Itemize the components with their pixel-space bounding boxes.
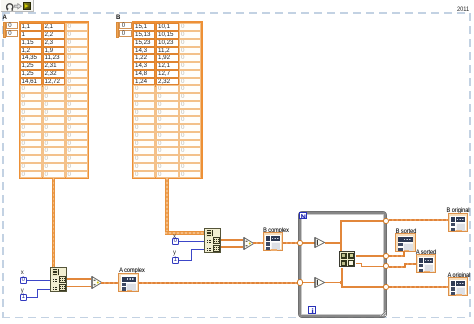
wire: sort node out2 seg3 to tunnel T3 — [361, 266, 383, 268]
wire: y constant to Index Array B seg2 — [191, 249, 192, 261]
array A data cells — [0, 0, 1, 1]
numeric constant x=0 (A chain) — [20, 277, 27, 285]
wire: triangle A to A complex — [101, 282, 119, 284]
boundary dashed line bottom — [2, 317, 470, 318]
wire: triangle 1 to junction — [325, 242, 342, 244]
array B shell frame — [132, 21, 203, 179]
wire: y constant to Index Array A seg2 — [37, 289, 38, 298]
wire: array B to Index Array (horizontal) — [165, 231, 204, 234]
numeric constant y=1 (B chain) — [172, 257, 179, 265]
toolbar icon: gray arrow — [14, 3, 22, 10]
wire: B complex to loop tunnel — [283, 242, 299, 244]
wire: y constant to Index Array B seg1 — [179, 260, 193, 261]
wire: sort node out1 to tunnel T2 — [356, 255, 383, 257]
wire: Index Array B out re — [221, 239, 243, 241]
wire: x constant to Index Array A — [27, 280, 50, 281]
loop input tunnel L2 (A complex) — [297, 279, 303, 285]
array A index display 0 — [6, 22, 19, 29]
wire: triangle B to B complex — [253, 242, 263, 244]
for loop N glyph — [301, 214, 306, 219]
toolbar background — [1, 0, 34, 12]
wire: top rail to tunnel T1 — [340, 220, 382, 222]
toolbar icon: circular arrow — [5, 2, 14, 11]
abs/magnitude triangle 2 (A) — [314, 277, 326, 288]
for loop structure — [299, 212, 387, 317]
junction dot 2 — [340, 281, 343, 284]
wire: A complex to loop tunnel — [139, 282, 299, 284]
wire: triangle 2 to junction 2 — [325, 282, 342, 284]
wire: sort node out2 seg1 — [356, 263, 363, 265]
wire: y constant to Index Array B seg3 — [191, 249, 204, 250]
loop output tunnel T1 (B original) — [383, 218, 389, 224]
indicator A complex — [118, 273, 139, 292]
wire: bottom rail to tunnel T4 — [341, 286, 383, 288]
for loop iteration terminal i — [308, 306, 316, 313]
wire: sort node out2 seg2 — [361, 263, 363, 267]
abs/magnitude triangle 1 (B) — [314, 237, 326, 248]
indicator B complex — [263, 232, 284, 251]
label B complex — [259, 227, 293, 234]
wire: Index Array B out im — [221, 246, 243, 248]
wire: Index Array A out re — [67, 278, 91, 280]
year label 2011 — [457, 6, 471, 13]
array B index display 1 — [119, 30, 132, 37]
boundary dashed line right — [469, 13, 470, 317]
wire: T1 to B original — [389, 219, 448, 221]
loop input tunnel L1 (B complex) — [297, 240, 303, 246]
wire: array B down (vertical) — [165, 178, 168, 231]
array B data cells — [0, 0, 1, 1]
for loop i glyph — [310, 308, 315, 313]
wire: y constant to Index Array A seg1 — [27, 297, 39, 298]
wire: x constant to Index Array B — [179, 241, 204, 242]
wire: junction down to sort node — [340, 242, 342, 251]
loop output tunnel T3 (A sorted) — [383, 263, 389, 269]
wire: T3 to A sorted seg1 — [389, 266, 406, 268]
sort 2D node (matrix icon) — [339, 251, 356, 268]
array A label — [3, 15, 7, 21]
toolbar icon run box — [23, 2, 31, 10]
array B index display 0 — [119, 22, 132, 29]
array B label — [116, 15, 120, 21]
label A complex — [115, 267, 149, 274]
wire: T4 to A original — [389, 286, 448, 288]
wire: Index Array A out im — [67, 286, 91, 288]
indicator B sorted — [395, 233, 416, 252]
wire: T3 to A sorted seg3 — [404, 263, 416, 265]
label B sorted — [389, 228, 423, 235]
array A index display 1 — [6, 30, 19, 37]
wire: junction 2 up to sort node — [341, 268, 343, 283]
boundary dashed line left — [2, 13, 3, 317]
indicator A sorted — [416, 254, 437, 273]
wire: y constant to Index Array A seg3 — [37, 289, 50, 290]
label y (A chain) — [21, 288, 26, 294]
wire: array A to Index Array (vertical) — [52, 178, 55, 267]
Re/Im to Complex function (A chain) — [91, 276, 103, 289]
junction dot 1 — [340, 242, 343, 245]
boundary dashed line top — [2, 12, 470, 13]
wire: T3 to A sorted seg2 — [404, 263, 406, 267]
indicator B original — [448, 213, 469, 232]
label A sorted — [409, 249, 443, 256]
Index Array node A1 (array A) — [50, 267, 67, 293]
wire: T2 to B sorted seg1 — [389, 255, 405, 257]
loop output tunnel T4 (A original) — [383, 284, 389, 290]
wire: junction up to top rail — [340, 220, 342, 244]
label B original — [441, 207, 474, 214]
loop output tunnel T2 (B sorted) — [383, 253, 389, 259]
wire: L1 to abs triangle 1 — [303, 242, 315, 244]
for loop count terminal N — [299, 212, 307, 219]
array B active region — [134, 23, 179, 88]
label A original — [442, 272, 474, 279]
array A shell frame — [19, 21, 90, 179]
Index Array node B1 (array B) — [204, 228, 221, 254]
wire: T2 to B sorted seg2 — [403, 251, 405, 257]
for loop resize grip — [379, 309, 386, 316]
array A active region — [20, 23, 65, 88]
label x (A chain) — [21, 270, 26, 276]
numeric constant x=0 (B chain) — [172, 238, 179, 246]
Re/Im to Complex function (B chain) — [243, 237, 255, 250]
label x (B chain) — [173, 234, 178, 240]
label y (B chain) — [173, 250, 178, 256]
wire: junction 2 down — [341, 282, 343, 288]
numeric constant y=1 (A chain) — [20, 294, 27, 302]
array B index arrows strip — [116, 22, 119, 38]
array A index arrows strip — [3, 22, 6, 38]
wire: L2 to abs triangle 2 — [303, 282, 315, 284]
indicator A original — [448, 277, 469, 296]
